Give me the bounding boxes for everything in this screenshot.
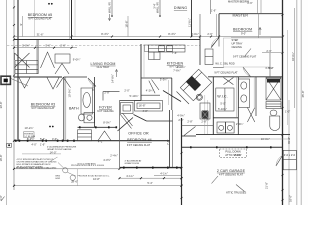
island stool: [196, 94, 202, 100]
svg-text:9 FT CEILING FLAT: 9 FT CEILING FLAT: [214, 70, 238, 74]
svg-text:BATH: BATH: [69, 107, 79, 111]
tray ceiling outline: [223, 38, 270, 67]
svg-text:16'-8": 16'-8": [0, 155, 3, 162]
svg-text:OFFICE OR: OFFICE OR: [128, 131, 149, 135]
kitchen east wall: [199, 37, 201, 66]
kitchen cabinet left column: [149, 52, 161, 60]
svg-text:2'-8": 2'-8": [187, 119, 192, 123]
svg-text:3'-4": 3'-4": [152, 3, 156, 8]
svg-text:45'-8": 45'-8": [287, 137, 291, 144]
svg-text:9 FT CEILING FLAT: 9 FT CEILING FLAT: [127, 143, 151, 147]
svg-text:28'-6": 28'-6": [71, 179, 78, 183]
wall master top: [219, 13, 283, 15]
dim master 52.75: [262, 52, 283, 54]
svg-text:16'-8": 16'-8": [139, 103, 146, 107]
svg-text:W 16 & TRIM BRG: W 16 & TRIM BRG: [78, 163, 96, 165]
masterbath vanity cabinet: [238, 79, 249, 108]
closet shelf box right: [55, 54, 70, 63]
emblem section marker: [1, 76, 28, 86]
closet wall divider: [37, 40, 39, 74]
wall office east double: [169, 110, 171, 168]
svg-text:BEDROOM: BEDROOM: [233, 28, 252, 32]
svg-text:4'-0": 4'-0": [31, 143, 36, 147]
entry door diagonal: [120, 114, 132, 129]
dim ext island: [168, 80, 170, 105]
shower dark bar: [267, 79, 280, 83]
vanity sink 2: [241, 95, 247, 102]
closet bifold big: [41, 52, 55, 68]
foyer bench built-in: [135, 101, 163, 112]
svg-text:4" ALUMINUM AT PRESSURE: 4" ALUMINUM AT PRESSURE: [47, 145, 77, 148]
dim front 185.7: [14, 185, 182, 187]
dots pair top: [48, 3, 50, 5]
callout circle B: [70, 175, 75, 180]
svg-text:5'-3¾": 5'-3¾": [160, 77, 168, 81]
ticks main dim y36.5: [13, 36, 284, 38]
svg-text:16'-0¼": 16'-0¼": [261, 137, 270, 141]
svg-text:CEILING: CEILING: [232, 45, 242, 49]
svg-text:8'-4½": 8'-4½": [168, 32, 176, 36]
svg-text:MASTER BEDRM: MASTER BEDRM: [228, 0, 249, 3]
dim ext right: [286, 30, 288, 125]
ticks garage west wall: [181, 152, 183, 199]
svg-text:16'-6": 16'-6": [124, 21, 128, 28]
svg-text:9 FT CEILING FLAT: 9 FT CEILING FLAT: [28, 16, 52, 20]
stove dark: [186, 76, 201, 91]
linen closet boxes: [78, 130, 92, 141]
dim front 169: [14, 168, 120, 170]
door swing bed3 left: [19, 78, 30, 89]
diag office wall: [118, 118, 134, 132]
door swing garage entry: [276, 156, 282, 167]
svg-text:3'-6": 3'-6": [45, 44, 50, 48]
pantry wall top: [141, 77, 172, 79]
sheet border left: [6, 0, 8, 205]
svg-text:BEDROOM #4: BEDROOM #4: [127, 138, 152, 142]
svg-text:4 PLY SPECIFICATION AT PLYWOOD: 4 PLY SPECIFICATION AT PLYWOOD: [17, 158, 54, 161]
window marks bath wall: [79, 126, 81, 128]
svg-text:4'-2¾": 4'-2¾": [146, 88, 154, 92]
arrow master ceiling: [259, 28, 261, 35]
leader note paragraph: [50, 157, 58, 162]
wall east exterior: [282, 0, 284, 205]
bath door X: [247, 108, 254, 123]
svg-text:16'-0": 16'-0": [288, 195, 292, 202]
wall bath top: [64, 76, 87, 78]
window marks front wall: [123, 167, 125, 169]
svg-text:7'-6¼": 7'-6¼": [173, 68, 181, 72]
closet scissor doors left: [15, 53, 30, 68]
emblem leader: [11, 79, 28, 87]
svg-text:2'-6": 2'-6": [60, 44, 65, 48]
tub deck bars: [266, 102, 281, 109]
shower X: [266, 78, 281, 101]
butler hall walls: [199, 14, 201, 37]
sheet border right inner: [296, 0, 298, 205]
callout circle A: [63, 168, 68, 173]
svg-text:4'-0½": 4'-0½": [103, 158, 111, 162]
bath toilet: [79, 114, 85, 121]
wic shelf outline: [216, 88, 234, 111]
svg-text:2'-0": 2'-0": [178, 118, 183, 122]
svg-text:2 CAR GARAGE: 2 CAR GARAGE: [217, 169, 246, 173]
svg-text:1'-6": 1'-6": [211, 9, 216, 13]
svg-text:5'-10¾": 5'-10¾": [129, 94, 138, 98]
ticks front dim rows: [119, 168, 183, 187]
svg-text:8'-0¼": 8'-0¼": [103, 120, 111, 124]
dim h main 36.5: [14, 36, 283, 38]
door swing bath: [88, 78, 96, 87]
svg-text:31'-6": 31'-6": [37, 32, 44, 36]
wall office top: [147, 120, 173, 122]
bath tub box: [81, 88, 93, 114]
master hall walls: [213, 66, 224, 68]
wall garage west: [181, 118, 183, 205]
wall top of living room: [14, 39, 200, 41]
svg-text:2'-0": 2'-0": [124, 88, 129, 92]
svg-text:7'-6": 7'-6": [172, 51, 177, 55]
svg-text:HDR: HDR: [56, 178, 61, 180]
svg-text:BEDROOM #5: BEDROOM #5: [28, 13, 53, 17]
svg-text:HDG STRAPS IF BEAMS AT DECK: HDG STRAPS IF BEAMS AT DECK: [17, 163, 52, 166]
dim line right lower: [288, 100, 290, 205]
svg-text:2'-8": 2'-8": [201, 119, 206, 123]
wall foyer nw corner: [103, 91, 120, 93]
dim line bedroom5: [22, 16, 24, 37]
svg-text:UP TRAY: UP TRAY: [232, 41, 243, 45]
svg-text:4'-1¾": 4'-1¾": [126, 174, 134, 178]
svg-text:5'-4": 5'-4": [268, 66, 273, 70]
corner mark bottom left: [1, 197, 5, 202]
dim line right: [294, 8, 296, 108]
mud hall dim lines: [207, 100, 209, 134]
svg-text:16'-8": 16'-8": [93, 177, 100, 181]
bath vanity: [84, 113, 95, 123]
master tray side line: [258, 14, 260, 38]
svg-text:WALL 9'0: WALL 9'0: [108, 1, 112, 13]
svg-text:1'-10¼": 1'-10¼": [176, 65, 185, 69]
kitchen sink boxes: [159, 46, 165, 52]
arrow living ceiling: [116, 70, 118, 77]
butler door triangle: [212, 38, 220, 47]
wall foyer top double: [120, 100, 142, 102]
svg-text:5'-0¼": 5'-0¼": [22, 44, 30, 48]
svg-text:4'-1¾": 4'-1¾": [160, 171, 168, 175]
wall living/kitchen divider: [140, 44, 142, 101]
wall porch west: [119, 101, 121, 168]
wic top wall: [208, 76, 282, 78]
kitchen divider parallel: [143, 44, 145, 78]
dots pair bed3: [49, 126, 51, 128]
svg-text:2'-6": 2'-6": [207, 32, 212, 36]
mud lockers: [200, 103, 210, 119]
pantry door swing: [149, 81, 155, 94]
dot wall marker ends: [111, 15, 113, 17]
svg-text:2'-0¾": 2'-0¾": [234, 153, 242, 157]
garage stoop box: [283, 150, 296, 170]
svg-text:30'-8": 30'-8": [0, 102, 3, 109]
foyer closet box: [121, 103, 134, 114]
svg-text:8'-4½": 8'-4½": [101, 32, 109, 36]
svg-text:5'-4": 5'-4": [147, 181, 152, 185]
svg-text:CLG TRAY: CLG TRAY: [97, 65, 110, 69]
dim ext dining: [210, 0, 212, 14]
master tub: [270, 116, 280, 131]
svg-text:2'-0¼": 2'-0¼": [236, 122, 244, 126]
svg-text:4" ALUMINUM AT: 4" ALUMINUM AT: [125, 159, 143, 162]
svg-text:GREAT ROOM: GREAT ROOM: [125, 162, 140, 165]
svg-text:2'-4¾": 2'-4¾": [110, 153, 118, 157]
wall dining east: [191, 0, 193, 37]
dim line livingroom vertical: [127, 16, 129, 37]
window marks garage top wall: [190, 146, 192, 148]
master door swing: [211, 38, 219, 49]
pantry wall bottom: [141, 94, 160, 96]
master tray line: [231, 37, 283, 39]
ticks east wall: [282, 14, 284, 201]
svg-text:5'-10¾": 5'-10¾": [218, 107, 227, 111]
closet bifold small under box: [55, 64, 69, 75]
wall bedroom3 east double: [63, 77, 65, 141]
wall wic/bath divider: [237, 77, 239, 135]
toilet room wall: [255, 77, 257, 116]
svg-text:10'-2¾": 10'-2¾": [24, 126, 33, 130]
wall front porch heavy: [120, 167, 182, 169]
svg-text:10'-0¾": 10'-0¾": [67, 88, 71, 97]
svg-text:W.I.C. DBL ROD: W.I.C. DBL ROD: [215, 62, 234, 66]
bath east wall: [94, 77, 96, 127]
svg-text:3'-0¼": 3'-0¼": [191, 32, 199, 36]
svg-text:21'-3¾": 21'-3¾": [206, 111, 210, 120]
wall bath south / hall: [78, 126, 118, 128]
svg-text:4'-0": 4'-0": [52, 137, 57, 141]
leader kitchen note: [244, 49, 251, 58]
svg-text:MASTER: MASTER: [233, 14, 249, 18]
svg-text:4 FT (SEILING FLAT: 4 FT (SEILING FLAT: [219, 172, 243, 176]
kitchen counter top row: [149, 45, 186, 52]
diag office top: [134, 115, 147, 122]
svg-text:45'-8": 45'-8": [301, 91, 305, 98]
shower box: [266, 78, 281, 101]
ticks left dim column: [13, 6, 15, 186]
master toilet: [270, 110, 277, 116]
kitchen fridge: [205, 49, 213, 65]
arrow lines above master: [257, 0, 259, 14]
dim marker wall B: [159, 0, 161, 17]
left dimension line: [13, 0, 15, 190]
svg-text:W.I.C.: W.I.C.: [217, 95, 227, 99]
closet shelf grid: [15, 61, 38, 74]
dim front 178: [120, 177, 182, 179]
arrow top marker: [109, 14, 111, 20]
bath tub oval: [83, 93, 91, 108]
svg-text:4'-1": 4'-1": [98, 139, 103, 143]
master bath door swing: [243, 67, 251, 77]
mud hall door base: [182, 135, 197, 137]
mud hall counter line: [182, 124, 214, 126]
wall bottom long (south bedroom3/office): [14, 140, 170, 142]
dashed attic stair box: [220, 149, 247, 158]
svg-text:14'-8¾": 14'-8¾": [110, 74, 114, 83]
wall master west: [218, 14, 220, 38]
svg-text:9'-8¾": 9'-8¾": [91, 83, 95, 91]
svg-text:11'-6¼": 11'-6¼": [187, 18, 191, 27]
dim line 14-0: [22, 153, 61, 155]
ticks closet dim y47.75: [13, 47, 73, 49]
wall bedroom5 east: [71, 0, 73, 40]
note egress box: [24, 132, 35, 138]
dim h closet 47.75: [14, 47, 77, 49]
dashed ceiling line: [7, 44, 200, 46]
fireplace box living: [145, 45, 149, 52]
svg-text:1'-0": 1'-0": [285, 110, 290, 114]
P marker: [7, 143, 12, 147]
dryer box: [226, 122, 234, 133]
svg-text:16'-0¼": 16'-0¼": [291, 52, 295, 61]
svg-text:9 FT CEILING FLAT: 9 FT CEILING FLAT: [233, 55, 257, 59]
vanity sink 1: [241, 82, 247, 89]
svg-text:DINING: DINING: [174, 6, 187, 10]
wall bedroom3 top: [14, 76, 62, 78]
sheet border right outer: [300, 0, 302, 205]
wic door X: [224, 78, 234, 85]
kitchen island rotated: [180, 69, 212, 101]
wic bottom wall: [213, 117, 238, 119]
svg-text:W BEARING WALL BEARING WALL BR: W BEARING WALL BEARING WALL BRG: [16, 167, 57, 170]
wall west exterior: [17, 0, 19, 141]
svg-text:4'-0 x 2'-0: 4'-0 x 2'-0: [284, 153, 296, 157]
door swing hall-office: [98, 131, 111, 141]
island corner diagonals: [177, 92, 190, 105]
svg-text:4'-0": 4'-0": [142, 109, 147, 113]
svg-text:STEP: STEP: [232, 38, 239, 42]
angled wall foyer to kitchen: [163, 91, 181, 102]
svg-text:14'-0": 14'-0": [50, 150, 57, 154]
dim ext bedroom5 closet: [34, 0, 36, 37]
dim marker wall A: [111, 0, 113, 17]
svg-text:BRG: BRG: [56, 175, 61, 177]
washer box: [217, 122, 225, 133]
svg-text:1'-6": 1'-6": [40, 143, 45, 147]
svg-text:2'-6": 2'-6": [266, 49, 271, 53]
door swing bed3 right: [47, 78, 59, 90]
svg-text:7'-6": 7'-6": [166, 140, 170, 145]
svg-text:21'-8": 21'-8": [265, 182, 269, 189]
svg-text:9'-0": 9'-0": [241, 32, 246, 36]
svg-text:9 FT CEILING: 9 FT CEILING: [97, 109, 113, 113]
leader garage note: [236, 185, 245, 192]
svg-text:2'-8": 2'-8": [104, 90, 109, 94]
wall wic laundry west: [212, 77, 214, 135]
dim line below bath: [210, 138, 290, 140]
porch dim vertical: [77, 169, 79, 186]
svg-text:9'-0¼": 9'-0¼": [73, 57, 81, 61]
door swing hall peak: [57, 77, 71, 87]
window marks south wall bed3: [15, 140, 17, 142]
wall garage top: [182, 146, 283, 148]
pantry wall right: [171, 78, 173, 110]
svg-text:4'-9¾": 4'-9¾": [177, 114, 185, 118]
wall south master bath laundry: [196, 134, 290, 136]
svg-text:9 FT CEILING FLAT: 9 FT CEILING FLAT: [31, 106, 55, 110]
mud hall door diagonal: [184, 127, 196, 136]
porch dim line upper: [154, 175, 182, 177]
